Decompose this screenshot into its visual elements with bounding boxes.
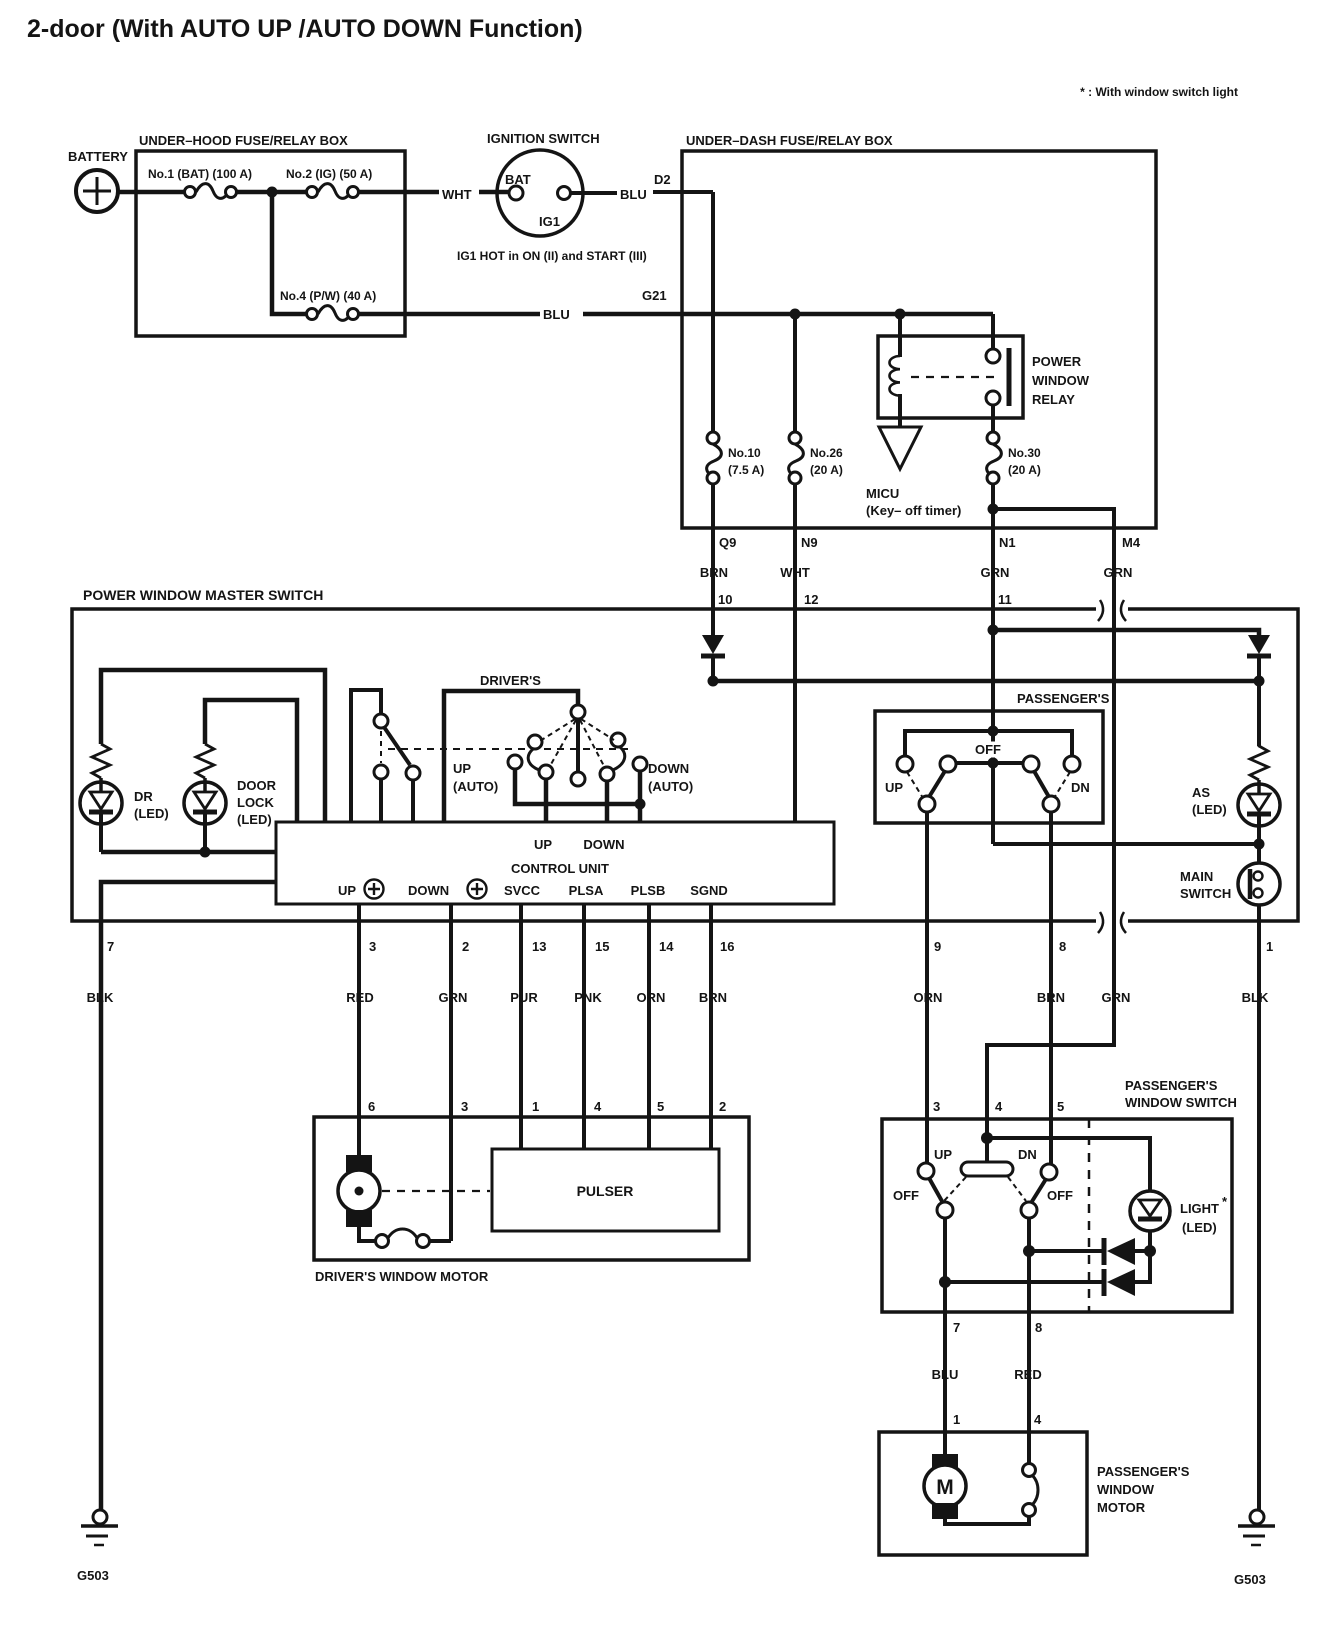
svg-text:MOTOR: MOTOR [1097,1500,1146,1515]
svg-text:(Key– off timer): (Key– off timer) [866,503,961,518]
relay actuation dashed link [911,376,1000,378]
svg-text:15: 15 [595,939,609,954]
svg-text:No.30: No.30 [1008,446,1041,460]
passenger's switch box (master) [875,711,1103,823]
svg-text:DRIVER'S WINDOW MOTOR: DRIVER'S WINDOW MOTOR [315,1269,489,1284]
pulser box [492,1149,719,1231]
svg-text:D2: D2 [654,172,671,187]
wire pin2 GRN [449,904,453,1241]
pin BAT contact [509,186,523,200]
svg-text:5: 5 [657,1099,664,1114]
svg-text:UP: UP [338,883,356,898]
driver's switch right bridge [613,747,625,770]
svg-text:OFF: OFF [893,1188,919,1203]
svg-text:GRN: GRN [439,990,468,1005]
motor thermal contact [376,1235,389,1248]
svg-text:LOCK: LOCK [237,795,274,810]
svg-text:12: 12 [804,592,818,607]
svg-text:No.26: No.26 [810,446,843,460]
svg-text:8: 8 [1059,939,1066,954]
svg-text:BLU: BLU [932,1367,959,1382]
LED DR [80,782,122,824]
under-dash fuse/relay box [682,151,1156,528]
svg-text:DOOR: DOOR [237,778,277,793]
svg-text:POWER: POWER [1032,354,1082,369]
svg-text:WHT: WHT [442,187,472,202]
svg-text:G21: G21 [642,288,667,303]
wire pin11 to diode D2r [993,630,1259,636]
svg-text:RED: RED [346,990,373,1005]
svg-text:2: 2 [462,939,469,954]
wire D2 down to fuse No.10 [711,192,715,432]
fuse No.26 (20A) [789,432,804,484]
passenger switch outer contacts [897,756,913,772]
ignition switch [497,150,583,236]
wire fuse No.10 to master switch [711,484,715,632]
svg-text:3: 3 [461,1099,468,1114]
svg-text:MAIN: MAIN [1180,869,1213,884]
wire DOWN stub to control unit [605,781,610,822]
dashed links passenger switch [907,772,1070,798]
svg-text:14: 14 [659,939,674,954]
svg-text:OFF: OFF [975,742,1001,757]
svg-text:3: 3 [369,939,376,954]
svg-text:BRN: BRN [1037,990,1065,1005]
svg-text:8: 8 [1035,1320,1042,1335]
ground G503 left [93,1510,107,1524]
svg-text:DOWN: DOWN [408,883,449,898]
svg-text:(LED): (LED) [1182,1220,1217,1235]
svg-text:(LED): (LED) [134,806,169,821]
svg-text:2-door (With AUTO UP /AUTO DOW: 2-door (With AUTO UP /AUTO DOWN Function… [27,15,583,43]
wire pin8 BRN [1049,921,1053,1165]
svg-text:IG1: IG1 [539,214,560,229]
fuse No.1 (BAT)(100A) [185,184,237,199]
under-hood fuse/relay box [136,151,405,336]
relay coil [898,314,902,357]
svg-text:DN: DN [1018,1147,1037,1162]
svg-text:4: 4 [1034,1412,1042,1427]
svg-text:GRN: GRN [1102,990,1131,1005]
svg-text:GRN: GRN [981,565,1010,580]
wire pin7 ground lead [101,882,276,1510]
svg-text:(AUTO): (AUTO) [648,779,693,794]
svg-text:UP: UP [885,780,903,795]
svg-text:UNDER–DASH FUSE/RELAY BOX: UNDER–DASH FUSE/RELAY BOX [686,133,893,148]
wire fuse No.4 branch vertical [272,192,307,314]
MICU triangle [879,427,921,469]
junction node pin11 branch [988,625,999,636]
svg-text:BLU: BLU [543,307,570,322]
wire fuse4 to BLU label [358,312,540,317]
svg-text:SGND: SGND [690,883,728,898]
svg-text:(20 A): (20 A) [810,463,843,477]
dashed link toggle [380,731,382,763]
driver's window motor box [314,1117,749,1260]
wire UP stub to control unit [544,779,549,822]
svg-text:7: 7 [953,1320,960,1335]
svg-text:DR: DR [134,789,153,804]
wire relay to fuse No.30 [991,405,995,432]
wire branch to M4 [987,509,1114,1140]
rocker actuator [961,1162,1013,1176]
wire fuse1 to fuse2 [236,190,307,195]
fuse No.30 (20A) [987,432,1002,484]
passenger's window motor box [879,1432,1087,1555]
svg-text:3: 3 [933,1099,940,1114]
wire UP(AUTO)/DOWN(AUTO) tie [515,769,640,804]
junction node AS/main switch [1254,839,1265,850]
wire pin9 ORN [925,921,929,1164]
ground G503 right [1250,1510,1264,1524]
svg-text:1: 1 [532,1099,539,1114]
svg-text:(AUTO): (AUTO) [453,779,498,794]
wire pin14 ORN [647,904,651,1149]
LED DOOR LOCK [184,782,226,824]
passenger's window switch box [882,1119,1232,1312]
svg-text:4: 4 [995,1099,1003,1114]
svg-text:DOWN: DOWN [583,837,624,852]
fuse No.4 (P/W)(40A) [307,306,359,321]
wire to fuse No.26 [793,314,797,432]
junction node G21/No.26 [790,309,801,320]
wire bus diodes [713,679,1259,684]
diode D2r (AS feed) [1248,635,1270,654]
wire door lock loop top [205,700,297,822]
resistor R2 (DOOR LOCK LED) [196,744,214,778]
svg-text:BLK: BLK [87,990,114,1005]
LED LIGHT [1130,1191,1170,1231]
dashed links driver's switch [540,719,614,768]
wire OFF output to AS node [993,842,1259,846]
svg-text:No.2 (IG) (50 A): No.2 (IG) (50 A) [286,167,372,181]
svg-text:CONTROL UNIT: CONTROL UNIT [511,861,609,876]
resistor R3 (AS LED) [1250,681,1268,780]
svg-text:UP: UP [934,1147,952,1162]
junction node lower diode tap [939,1276,951,1288]
UP contact (pass switch) [918,1163,934,1179]
control unit box [276,822,834,904]
svg-text:N9: N9 [801,535,818,550]
svg-text:OFF: OFF [1047,1188,1073,1203]
junction node diode bus right [1254,676,1265,687]
svg-text:Q9: Q9 [719,535,736,550]
svg-text:LIGHT: LIGHT [1180,1201,1219,1216]
svg-text:IGNITION SWITCH: IGNITION SWITCH [487,131,600,146]
svg-text:4: 4 [594,1099,602,1114]
svg-text:5: 5 [1057,1099,1064,1114]
svg-text:No.4 (P/W) (40 A): No.4 (P/W) (40 A) [280,289,376,303]
wire motor brush loop [359,1227,375,1241]
svg-text:GRN: GRN [1104,565,1133,580]
wire pin3 RED [357,904,361,1156]
wire passenger feed bar [905,731,1072,757]
wire driver's switch frame [444,691,578,822]
driver's switch pivot [571,705,585,719]
driver's switch center arm [576,719,580,771]
wire battery to fuse No.1 [118,190,184,195]
junction node G21/relay coil [895,309,906,320]
dashed link motor to pulser [382,1190,490,1192]
svg-text:PLSB: PLSB [631,883,666,898]
svg-text:BAT: BAT [505,172,531,187]
wire pin8 RED [1027,1218,1031,1464]
svg-text:* : With window switch light: * : With window switch light [1080,85,1238,99]
svg-text:RED: RED [1014,1367,1041,1382]
dashed links rocker [944,1177,1026,1201]
svg-text:1: 1 [1266,939,1273,954]
power window master switch box [72,609,1298,921]
svg-text:M4: M4 [1122,535,1141,550]
junction node LED return [200,847,211,858]
svg-text:AS: AS [1192,785,1210,800]
svg-text:PLSA: PLSA [569,883,604,898]
svg-text:UNDER–HOOD FUSE/RELAY BOX: UNDER–HOOD FUSE/RELAY BOX [139,133,348,148]
passenger switch arms [929,771,945,797]
svg-text:G503: G503 [1234,1572,1266,1587]
dashed link toggle to driver switch [388,748,628,750]
svg-text:BLU: BLU [620,187,647,202]
svg-text:6: 6 [368,1099,375,1114]
svg-text:BRN: BRN [699,990,727,1005]
driver's switch outer contacts [508,755,522,769]
wire fuse No.30 down, N1 [991,484,995,632]
svg-text:No.1 (BAT) (100 A): No.1 (BAT) (100 A) [148,167,252,181]
svg-text:WINDOW SWITCH: WINDOW SWITCH [1125,1095,1237,1110]
svg-text:(LED): (LED) [1192,802,1227,817]
junction node pin4 [981,1132,993,1144]
dashed partition [1088,1119,1091,1312]
svg-text:SVCC: SVCC [504,883,541,898]
svg-text:UP: UP [534,837,552,852]
wire pin4 to rocker [985,1138,989,1162]
wire pin9 [925,812,929,921]
svg-text:11: 11 [998,592,1012,607]
wire fuse No.26 down to control unit [793,484,797,822]
svg-text:BRN: BRN [700,565,728,580]
svg-text:M: M [936,1476,954,1499]
svg-text:1: 1 [953,1412,960,1427]
diode D3 upper [1029,1249,1102,1253]
wire pin11 down through passenger switch [991,632,995,844]
svg-text:9: 9 [934,939,941,954]
svg-text:13: 13 [532,939,546,954]
wire pin7 BLU [943,1218,947,1454]
LED AS [1238,784,1280,826]
wire pin13 PUR [519,904,523,1149]
wire LED loop top [101,670,325,822]
junction node feed bar [988,726,999,737]
wire LED return to control unit [101,850,276,855]
motor breaker contact [1023,1464,1036,1477]
svg-text:POWER WINDOW MASTER SWITCH: POWER WINDOW MASTER SWITCH [83,587,323,603]
svg-text:(7.5 A): (7.5 A) [728,463,764,477]
DN contact (pass switch) [1041,1164,1057,1180]
svg-text:PASSENGER'S: PASSENGER'S [1125,1078,1218,1093]
toggle switch S1 [351,690,381,822]
fuse No.2 (IG)(50A) [307,184,359,199]
svg-text:G503: G503 [77,1568,109,1583]
pin IG1 contact [558,187,571,200]
svg-text:ORN: ORN [914,990,943,1005]
wire pin16 BRN [709,904,713,1149]
passenger switch bridge [956,761,1023,765]
junction node auto tie [635,799,646,810]
svg-text:WINDOW: WINDOW [1097,1482,1155,1497]
relay contact arm [991,314,995,349]
svg-text:2: 2 [719,1099,726,1114]
svg-text:(20 A): (20 A) [1008,463,1041,477]
junction node LED return [1144,1245,1156,1257]
svg-text:RELAY: RELAY [1032,392,1075,407]
wire main switch to ground [1257,905,1261,1510]
wire pin8 [1049,812,1053,921]
diode D1 (pin10 feed) [711,632,715,636]
svg-text:IG1 HOT in ON (II) and START (: IG1 HOT in ON (II) and START (III) [457,249,647,263]
svg-text:DOWN: DOWN [648,761,689,776]
wire G21 into under-dash box [583,312,993,317]
power window relay box [878,336,1023,418]
wire pin4 to LED light [987,1138,1150,1192]
driver's switch left bridge [528,749,539,770]
svg-text:PASSENGER'S: PASSENGER'S [1097,1464,1190,1479]
svg-text:N1: N1 [999,535,1016,550]
svg-text:WHT: WHT [780,565,810,580]
junction node diode bus left [708,676,719,687]
svg-text:UP: UP [453,761,471,776]
wire WHT to ignition switch [479,190,509,195]
svg-text:7: 7 [107,939,114,954]
junction node upper diode tap [1023,1245,1035,1257]
diode D4 lower [945,1280,1102,1284]
svg-text:10: 10 [718,592,732,607]
svg-text:DRIVER'S: DRIVER'S [480,673,541,688]
svg-text:16: 16 [720,939,734,954]
svg-text:BATTERY: BATTERY [68,149,128,164]
switch arms (pass switch) [929,1178,943,1203]
junction node N1/M4 [988,504,999,515]
svg-text:PNK: PNK [574,990,602,1005]
wire IG1 to BLU label [571,191,617,195]
svg-text:SWITCH: SWITCH [1180,886,1231,901]
wire pin15 PNK [582,904,586,1149]
svg-text:(LED): (LED) [237,812,272,827]
svg-text:BLK: BLK [1242,990,1269,1005]
svg-text:PULSER: PULSER [577,1183,634,1199]
svg-text:No.10: No.10 [728,446,761,460]
svg-text:WINDOW: WINDOW [1032,373,1090,388]
wire fuse2 to WHT label [358,190,439,195]
svg-text:DN: DN [1071,780,1090,795]
battery B1 [76,170,118,212]
motor M2 [932,1454,958,1470]
svg-text:PASSENGER'S: PASSENGER'S [1017,691,1110,706]
fuse No.10 (7.5A) [707,432,722,484]
motor M1 [346,1155,372,1172]
svg-text:ORN: ORN [637,990,666,1005]
main switch [1238,863,1280,905]
border pass-through marks top [1096,598,1128,624]
junction node bridge center [988,758,999,769]
svg-text:PUR: PUR [510,990,538,1005]
resistor R1 (DR LED) [92,744,110,778]
junction node at fuse split [267,187,278,198]
wire motor loop [945,1517,1029,1524]
svg-text:MICU: MICU [866,486,899,501]
wire BLU to under-dash box [653,190,713,194]
border pass-through marks bottom [1096,910,1128,936]
